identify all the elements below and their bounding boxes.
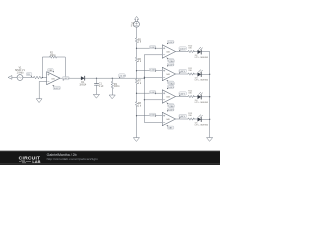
label out5 annotation: [179, 114, 186, 118]
label R12: [188, 90, 193, 94]
svg-text:LTL-30EBJ: LTL-30EBJ: [195, 125, 209, 127]
ground input left: [8, 76, 17, 80]
wire: [202, 51, 210, 53]
label out3 annotation: [179, 69, 186, 73]
wire: [85, 77, 144, 79]
svg-text:5.00 V: 5.00 V: [168, 87, 174, 89]
node tap2: [136, 70, 137, 71]
label OA5 top box: [169, 105, 175, 108]
node bus2: [144, 77, 145, 78]
source V2: [134, 21, 140, 27]
svg-text:5.00 V: 5.00 V: [168, 42, 174, 44]
label R1: [26, 73, 32, 78]
label OA3 top box: [169, 60, 175, 63]
node out1 junction: [65, 78, 66, 79]
wire out3: [176, 73, 189, 75]
label out2 annotation: [179, 47, 186, 51]
label D2: [195, 55, 209, 59]
svg-text:5.00 V: 5.00 V: [168, 64, 174, 66]
svg-text:5.00 V: 5.00 V: [168, 109, 174, 111]
wire ladder top: [136, 27, 138, 38]
resistor R13: [188, 118, 194, 120]
resistor R7: [135, 79, 137, 84]
label R7: [138, 81, 142, 85]
label R13: [188, 113, 193, 117]
svg-text:5 V: 5 V: [131, 25, 135, 27]
wire tap4: [137, 115, 163, 117]
resistor R3: [111, 78, 113, 95]
resistor R10: [188, 50, 194, 52]
source V1: [17, 75, 23, 81]
op-amp OA2: [162, 45, 175, 58]
label R11: [188, 68, 193, 72]
node A junction: [42, 77, 43, 78]
wire: [202, 73, 210, 75]
resistor R12: [188, 95, 194, 97]
label OA3 box: [167, 63, 175, 67]
node res junction: [112, 78, 113, 79]
diode D1: [81, 76, 85, 80]
resistor R1: [34, 76, 42, 79]
node tap1: [136, 48, 137, 49]
wire comp3 minus: [144, 99, 162, 101]
wire: [136, 84, 138, 102]
node tap4: [136, 115, 137, 116]
wire out5: [176, 118, 189, 120]
label OA4 box: [167, 86, 175, 90]
svg-text:OA3: OA3: [166, 73, 170, 76]
wire ladder bottom: [136, 107, 138, 138]
label D1: [79, 82, 87, 86]
svg-text:0.00 V: 0.00 V: [63, 78, 69, 80]
wire feedback left: [42, 57, 49, 78]
wire out2: [176, 51, 189, 53]
wire signal bus: [143, 55, 145, 123]
wire: [194, 96, 198, 98]
wire comp2 minus: [144, 76, 162, 78]
wire: [202, 96, 210, 98]
svg-text:OA1: OA1: [51, 78, 55, 81]
op-amp OA1: [47, 72, 60, 85]
LED D5: [198, 115, 203, 122]
label D4: [195, 100, 209, 104]
label R8: [138, 103, 142, 107]
wire output: [60, 77, 81, 79]
ground: [207, 138, 213, 142]
wire: [194, 73, 198, 75]
LED D2: [198, 47, 203, 54]
label OA1 box: [48, 69, 54, 73]
label tap4 annotation: [149, 113, 156, 117]
circuitlab logo: [19, 156, 41, 164]
svg-text:100 k: 100 k: [50, 55, 57, 57]
LED D3: [198, 70, 203, 77]
resistor R5: [135, 38, 137, 43]
footer bar: [0, 151, 220, 165]
wire: [194, 51, 198, 53]
svg-text:LTL-30EBJ: LTL-30EBJ: [195, 80, 209, 82]
wire led bus: [209, 52, 211, 138]
svg-text:http://circuitlab.com/c/pwbcar: http://circuitlab.com/c/pwbcart/1gtv: [47, 157, 99, 161]
svg-text:LAB: LAB: [32, 159, 40, 164]
capacitor C1: [94, 78, 98, 94]
wire: [202, 118, 210, 120]
label V1: [15, 68, 26, 75]
svg-text:100 k: 100 k: [114, 86, 121, 88]
ground: [109, 95, 115, 99]
wire out4: [176, 96, 189, 98]
wire tap3: [137, 92, 163, 94]
resistor R11: [188, 73, 194, 75]
label OA4 top box: [169, 82, 175, 85]
label V2: [131, 23, 135, 27]
wire comp4 minus: [144, 121, 162, 123]
node tap3: [136, 93, 137, 94]
resistor R8: [135, 102, 137, 107]
label R2: [50, 53, 57, 57]
label peak annotation: [119, 74, 127, 79]
node led4: [209, 119, 210, 120]
svg-text:1 kHz): 1 kHz): [17, 73, 24, 75]
label OA4 below annotation: [166, 102, 173, 107]
wire feedback right: [57, 57, 66, 78]
LED D4: [198, 92, 203, 99]
svg-text:OA5: OA5: [166, 118, 170, 121]
label R3: [114, 84, 121, 88]
wire opamp plus to ground: [39, 82, 46, 99]
svg-text:1N914: 1N914: [79, 84, 87, 86]
resistor R2: [50, 56, 57, 58]
footer text: [47, 153, 99, 161]
node bus3: [144, 99, 145, 100]
wire comp1 minus: [144, 54, 162, 56]
wire tap1: [137, 47, 163, 49]
svg-text:LTL-30EBJ: LTL-30EBJ: [195, 57, 209, 59]
label D5: [195, 123, 209, 127]
resistor R6: [135, 57, 137, 62]
wire tap2: [137, 70, 163, 72]
op-amp OA4: [162, 90, 175, 103]
label tap2 annotation: [149, 68, 156, 72]
svg-text:OA4: OA4: [166, 96, 170, 99]
node led3: [209, 96, 210, 97]
label OA1 below annotation: [52, 85, 60, 90]
label D3: [195, 78, 209, 82]
svg-text:LTL-30EBJ: LTL-30EBJ: [195, 102, 209, 104]
label R6: [138, 59, 142, 63]
label out1 annotation: [63, 77, 70, 81]
wire: [194, 118, 198, 120]
svg-text:1 uF: 1 uF: [99, 86, 104, 88]
wire: [136, 43, 138, 58]
label C1: [99, 84, 104, 88]
label tap3 annotation: [149, 91, 156, 95]
labels group: [15, 23, 142, 108]
svg-text:5.00 V: 5.00 V: [180, 48, 186, 50]
label tap1 annotation: [149, 46, 156, 50]
label out4 annotation: [179, 92, 186, 96]
svg-text:OA2: OA2: [166, 51, 170, 54]
svg-text:2.4 mV: 2.4 mV: [120, 75, 127, 77]
node busfeed: [144, 78, 145, 79]
ground: [94, 94, 100, 98]
node led2: [209, 74, 210, 75]
op-amp OA3: [162, 67, 175, 80]
wire: [42, 77, 47, 79]
supply V2 arrow: [135, 17, 139, 22]
wire: [136, 62, 138, 79]
label R10: [188, 45, 193, 49]
svg-text:0.00 V: 0.00 V: [54, 88, 60, 90]
label OA5 box: [167, 108, 175, 112]
ground: [134, 138, 140, 142]
wire: [23, 77, 34, 79]
comparator labels group: [149, 41, 208, 130]
ground: [36, 99, 42, 103]
node cap junction: [96, 78, 97, 79]
op-amp OA5: [162, 112, 175, 125]
label R5: [138, 39, 142, 43]
label OA5 below annotation: [166, 125, 173, 130]
label OA2 box: [167, 41, 175, 45]
label OA2 below annotation: [166, 57, 173, 62]
label OA3 below annotation: [166, 80, 173, 85]
